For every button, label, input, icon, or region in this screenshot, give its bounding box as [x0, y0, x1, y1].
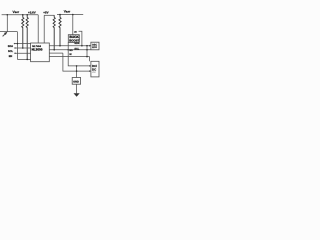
resistor R3 — [53, 15, 55, 50]
junction dot at R4 top — [59, 14, 61, 16]
resistor R2 — [26, 15, 28, 60]
wire4 y59.4 into U1 — [17, 58, 30, 60]
resistor R1 — [22, 15, 24, 48]
pin arrow into U3 — [89, 45, 91, 47]
junction dot at R1 top — [22, 14, 24, 16]
junction dot wire4 R2 — [26, 59, 28, 61]
wire EN left — [14, 52, 30, 54]
wire flash right stub to SDA — [79, 31, 82, 46]
wire SDA left — [14, 43, 31, 45]
junction dot R3 on SCL right — [53, 49, 55, 51]
junction dot x87 SDA — [86, 45, 88, 47]
svg-text:+3.6V: +3.6V — [28, 10, 36, 14]
svg-text:SCL: SCL — [74, 48, 79, 51]
wire SCL right — [49, 49, 91, 51]
junction dot SCL R1 — [22, 47, 24, 49]
junction dot on VBAT rail at x7.3 — [7, 14, 9, 16]
IC U1 box — [31, 43, 50, 62]
wire W4 right — [49, 56, 89, 58]
wire flash VCC drop x72.8 — [72, 15, 74, 35]
svg-text:EN: EN — [9, 55, 13, 58]
svg-text:LDO: LDO — [92, 46, 97, 49]
arrow symbol at left wire — [3, 34, 6, 37]
wire ground stem — [76, 84, 78, 93]
wire +5V rail — [44, 14, 54, 16]
svg-text:DC: DC — [92, 67, 97, 71]
junction dot R4 on SDA right — [59, 45, 61, 47]
pin arrow into U4 pin1 — [89, 65, 91, 67]
svg-text:VBAT: VBAT — [13, 10, 20, 14]
junction dot x76.6 pin1 wire — [76, 65, 78, 67]
svg-text:U2: U2 — [74, 31, 78, 34]
svg-text:SCL: SCL — [8, 50, 13, 53]
junction dot flash drop on SCL — [67, 49, 69, 51]
GND box — [72, 78, 80, 85]
wire vertical x87 — [86, 46, 88, 57]
svg-text:BOOST: BOOST — [69, 39, 80, 43]
svg-text:CV: CV — [93, 71, 97, 74]
pin arrow EN left — [15, 52, 17, 54]
svg-text:GND: GND — [73, 81, 79, 84]
junction dot SDA x17.4 — [17, 43, 19, 45]
junction dot x76.6 pin2 wire — [76, 70, 78, 72]
flash module box U2 — [68, 35, 79, 43]
svg-text:NL3000: NL3000 — [32, 48, 43, 52]
pin arrow into U4 pin2 — [89, 70, 91, 72]
resistor R4 — [59, 15, 61, 46]
wire W3 right — [49, 52, 63, 54]
svg-text:SO: SO — [69, 49, 73, 52]
junction dot x87 SCL — [86, 49, 88, 51]
svg-text:SI: SI — [69, 53, 72, 56]
wire +5V left drop to U1 — [43, 15, 45, 43]
svg-text:SDA: SDA — [8, 45, 13, 48]
pin arrow SCL left — [15, 47, 17, 49]
junction dot at flash VCC — [72, 14, 74, 16]
wire W3 corner down to DCDC pin2 — [63, 53, 91, 71]
wire W4 corner into DCDC top — [89, 57, 91, 62]
svg-text:+5V: +5V — [43, 10, 48, 14]
wire VBAT right rail — [57, 14, 83, 16]
junction dot at R2 top — [26, 14, 28, 16]
pin arrow SDA left — [14, 43, 16, 45]
wire SCL left — [14, 47, 30, 49]
wire VBAT drop at x7.3 — [6, 15, 8, 32]
ground symbol triangle — [74, 93, 80, 97]
wire +3.6V drop to U1 — [37, 15, 39, 43]
wire horizontal y31.6 to left edge — [0, 31, 17, 33]
svg-text:VBAT: VBAT — [64, 10, 71, 14]
junction dot stub on SDA — [81, 45, 83, 47]
small box U3 right — [91, 42, 99, 50]
wire GND drop x76.6 — [76, 66, 78, 78]
wire VBAT left rail — [2, 14, 39, 16]
wire flash bottom drop to DCDC pin1 — [68, 42, 91, 66]
wire SDA right — [49, 45, 91, 47]
junction dot x87 W4 — [86, 56, 88, 58]
wire vertical x17.4 down — [16, 32, 18, 60]
DC/DC box U4 — [91, 61, 99, 77]
